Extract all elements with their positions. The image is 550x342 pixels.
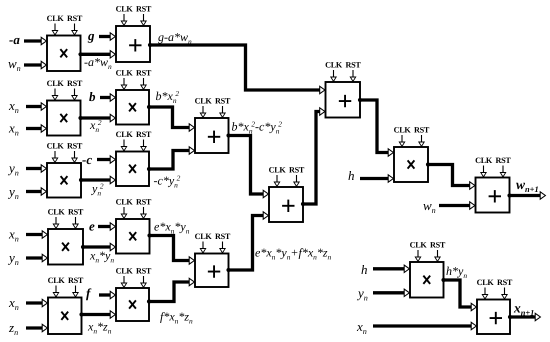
- wire M10 output to A6: [426, 162, 475, 189]
- multiplier M11 (h * yn): [410, 262, 444, 298]
- svg-text:RST: RST: [67, 142, 83, 151]
- multiplier M3 (b * xn^2): [116, 90, 149, 125]
- multiplier M8 (xn * zn): [48, 298, 82, 335]
- svg-text:e*xn*yn+f*xn*zn: e*xn*yn+f*xn*zn: [255, 246, 332, 262]
- svg-text:b*xn2: b*xn2: [156, 89, 180, 105]
- CLK/RST pins of multiplier M1 (-a * wn): [47, 14, 83, 35]
- svg-text:g: g: [87, 28, 95, 43]
- wire M2 output xn^2 to M3: [78, 114, 115, 121]
- CLK/RST pins of adder A6 (wn+1): [475, 156, 511, 177]
- wire A6 output wn+1: [507, 192, 545, 199]
- multiplier M4 (yn * yn): [47, 163, 81, 198]
- svg-text:CLK: CLK: [47, 14, 65, 23]
- svg-text:RST: RST: [136, 198, 152, 207]
- svg-text:RST: RST: [414, 126, 430, 135]
- svg-text:CLK: CLK: [475, 156, 493, 165]
- CLK/RST pins of multiplier M11 (h * yn): [410, 241, 446, 262]
- svg-text:CLK: CLK: [116, 267, 134, 276]
- wire M1 output -a*wn to A1: [78, 51, 115, 58]
- wire zn input stub: [26, 324, 47, 331]
- svg-text:CLK: CLK: [410, 241, 428, 250]
- svg-text:b: b: [89, 89, 96, 104]
- wire A7 output xn+1: [508, 313, 541, 320]
- svg-text:RST: RST: [68, 276, 84, 285]
- multiplier M1 (-a * wn): [47, 36, 81, 72]
- svg-text:RST: RST: [215, 97, 231, 106]
- wire yn input stub to M11: [373, 289, 409, 296]
- wire A5 output to M10: [358, 98, 394, 156]
- svg-text:CLK: CLK: [269, 166, 287, 175]
- multiplier M2 (xn * xn): [47, 101, 81, 136]
- svg-text:CLK: CLK: [116, 5, 134, 14]
- wire wn input stub to A6: [439, 202, 475, 209]
- svg-text:RST: RST: [67, 79, 83, 88]
- wire xn input stub 2: [26, 125, 46, 132]
- svg-text:CLK: CLK: [48, 276, 66, 285]
- multiplier M9 (f * xn*zn): [116, 288, 149, 321]
- wire e input stub: [98, 223, 115, 230]
- svg-text:CLK: CLK: [195, 97, 213, 106]
- wire f input stub: [99, 291, 115, 298]
- wire A3 output to A4: [226, 212, 268, 272]
- wire M8 output xn*zn to M9: [79, 311, 115, 318]
- svg-text:CLK: CLK: [47, 142, 65, 151]
- CLK/RST pins of adder A7 (xn+1): [477, 278, 513, 299]
- wire M11 output h*yn to A7: [441, 278, 476, 311]
- adder A2 (b*xn^2 - c*yn^2): [195, 118, 229, 153]
- CLK/RST pins of adder A1 (g - a*wn): [116, 5, 152, 26]
- CLK/RST pins of adder A4 (middle sum): [269, 166, 305, 187]
- wire xn input stub 4: [26, 299, 47, 306]
- multiplier M6 (xn * yn): [48, 229, 83, 265]
- svg-text:-a*wn: -a*wn: [84, 55, 112, 71]
- svg-text:h: h: [348, 168, 355, 183]
- svg-text:CLK: CLK: [477, 278, 495, 287]
- svg-text:CLK: CLK: [195, 232, 213, 241]
- wire -a input stub: [24, 37, 46, 44]
- adder A4 (middle sum): [269, 187, 303, 222]
- wire g input stub: [99, 33, 115, 40]
- svg-text:e: e: [89, 219, 95, 234]
- CLK/RST pins of multiplier M7 (e * xn*yn): [116, 198, 152, 219]
- wire xn long input to A7: [373, 322, 476, 329]
- svg-text:RST: RST: [67, 14, 83, 23]
- CLK/RST pins of multiplier M5 (-c * yn^2): [116, 130, 152, 151]
- wire M3 output b*xn^2 to A2: [147, 105, 195, 131]
- wire xn input stub 3: [26, 231, 47, 238]
- adder A6 (wn+1): [476, 178, 510, 213]
- wire A2 output to A4: [226, 133, 268, 197]
- svg-text:g-a*wn: g-a*wn: [158, 30, 192, 46]
- CLK/RST pins of adder A5 (top sum): [325, 61, 361, 82]
- CLK/RST pins of multiplier M9 (f * xn*zn): [116, 267, 152, 288]
- svg-text:RST: RST: [345, 61, 361, 70]
- svg-text:b*xn2-c*yn2: b*xn2-c*yn2: [232, 119, 283, 135]
- wire M5 output -c*yn^2 to A2: [147, 147, 195, 171]
- wire M7 output e*xn*yn to A3: [147, 233, 194, 264]
- svg-text:CLK: CLK: [116, 130, 134, 139]
- svg-text:CLK: CLK: [116, 198, 134, 207]
- wire yn input stub 1: [26, 165, 46, 172]
- svg-text:RST: RST: [136, 267, 152, 276]
- svg-text:h: h: [361, 262, 368, 277]
- CLK/RST pins of multiplier M2 (xn * xn): [47, 79, 83, 100]
- adder A1 (g - a*wn): [116, 26, 150, 62]
- svg-text:RST: RST: [136, 130, 152, 139]
- svg-text:CLK: CLK: [48, 208, 66, 217]
- CLK/RST pins of multiplier M8 (xn * zn): [48, 276, 84, 297]
- svg-text:CLK: CLK: [394, 126, 412, 135]
- wire M6 output xn*yn to M7: [81, 243, 116, 250]
- svg-text:RST: RST: [215, 232, 231, 241]
- svg-text:CLK: CLK: [116, 69, 134, 78]
- svg-text:CLK: CLK: [47, 79, 65, 88]
- svg-text:-c: -c: [82, 152, 92, 167]
- wire b input stub: [100, 94, 115, 101]
- adder A5 (top sum): [326, 82, 361, 118]
- svg-text:RST: RST: [68, 208, 84, 217]
- wire M9 output f*xn*zn to A3: [147, 278, 195, 303]
- svg-text:RST: RST: [497, 278, 513, 287]
- svg-text:RST: RST: [289, 166, 305, 175]
- CLK/RST pins of adder A3 (e*xn*yn + f*xn*zn): [195, 232, 231, 253]
- svg-text:-a: -a: [9, 32, 20, 47]
- wire A4 output to A5: [301, 108, 325, 206]
- wire yn input stub 3: [26, 254, 47, 261]
- svg-text:-c*yn2: -c*yn2: [154, 173, 181, 189]
- wire yn input stub 2: [26, 188, 46, 195]
- wire xn input stub 1: [26, 103, 46, 110]
- CLK/RST pins of multiplier M10 (h * sum): [394, 126, 430, 147]
- multiplier M7 (e * xn*yn): [116, 219, 150, 254]
- wire wn input stub: [24, 61, 46, 68]
- wire h input stub to M10: [360, 175, 393, 182]
- wire A1 output g-a*wn to A5: [148, 43, 325, 94]
- CLK/RST pins of multiplier M3 (b * xn^2): [116, 69, 152, 90]
- wire M4 output yn^2 to M5: [79, 176, 116, 183]
- svg-text:RST: RST: [136, 69, 152, 78]
- svg-text:RST: RST: [136, 5, 152, 14]
- wire -c input stub: [97, 156, 115, 163]
- adder A7 (xn+1): [477, 300, 510, 335]
- CLK/RST pins of multiplier M6 (xn * yn): [48, 208, 84, 229]
- CLK/RST pins of multiplier M4 (yn * yn): [47, 142, 83, 163]
- svg-text:CLK: CLK: [325, 61, 343, 70]
- svg-text:RST: RST: [495, 156, 511, 165]
- CLK/RST pins of adder A2 (b*xn^2 - c*yn^2): [195, 97, 231, 118]
- adder A3 (e*xn*yn + f*xn*zn): [195, 254, 229, 288]
- wire h input stub to M11: [373, 265, 409, 272]
- multiplier M5 (-c * yn^2): [116, 152, 149, 187]
- svg-text:RST: RST: [430, 241, 446, 250]
- multiplier M10 (h * sum): [394, 147, 428, 182]
